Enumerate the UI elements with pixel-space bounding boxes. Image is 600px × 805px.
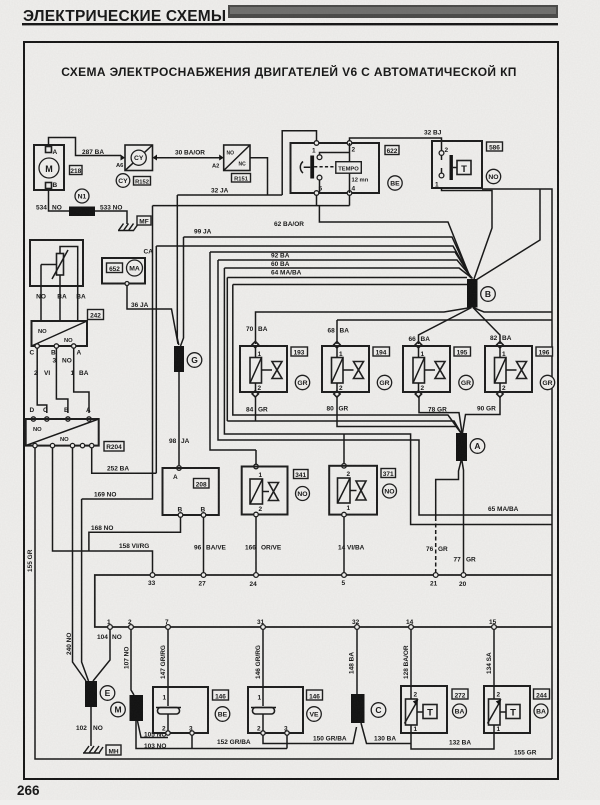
wire 60 BA (to 65 MA/BA run) [218,260,552,515]
circle NO (371) [383,484,397,498]
wire 78 GR (195 to A) [419,396,462,433]
wire 622 terminal 1 up-left-down [282,131,316,195]
bus terminal 31 [257,619,265,629]
connector A [456,433,485,461]
solenoid valve 371 [329,464,377,517]
wire 148 BA (bus 32 to C) [349,629,358,694]
circle GR (193) [295,375,309,389]
label 146 (BE) [213,690,229,700]
wire 64 MA/BA [224,268,552,525]
motor M1 (component 218) [34,145,64,190]
wire 341-1 tap up [255,450,257,464]
bus terminal 15 [489,619,497,629]
wire 84 GR (193 to A) [227,396,461,433]
header gray bar [228,5,558,18]
label 146 (VE) [307,690,323,700]
label 194 [373,347,390,356]
label MF [137,216,151,225]
relay contact R151 [212,145,250,171]
wire 130 BA (C to 272) [361,723,411,744]
label 65 MA/BA [488,506,519,513]
label 218 [70,166,83,175]
wire 77 GR (A to bus 20) [454,461,477,573]
wire N1 splice 534 NO / 533 NO and ground MF [36,190,127,224]
circle BE (146-1) [215,707,230,722]
relay 652 with MA [102,258,145,286]
circle GR (195) [459,375,473,389]
wire 622 terminals 5/4 junction to left vertical [153,195,350,205]
bus terminal 14 [406,619,414,629]
wire 146 GR/RG (bus 31 to 146-2) [255,629,263,687]
circle GR (194) [377,375,391,389]
connector C [351,694,386,723]
circle N1 [75,189,89,203]
wire 90 GR (196 to A) [463,396,501,433]
wire 76 GR dashed (A to bus 21) [426,461,461,573]
bus terminal 1 [107,619,112,629]
switch box NO/NO (under 242) [30,321,88,357]
injector feed rail from B (70 BA) [246,308,552,345]
circle NO (341) [296,487,310,501]
label 622 [385,146,399,155]
ground near motor [118,224,139,231]
bus terminal 24 [250,573,259,588]
connector G [174,346,202,372]
wire 150 GR/BA (146-2 to C) [263,727,357,744]
circle BE (622) [388,176,402,190]
injector 193 [240,341,287,397]
circle BA (244) [534,704,548,718]
label R204 [104,442,124,452]
wire 158 VI/RG (R204 to bus 33) [53,448,153,573]
wire 80 GR (194 to A) [327,396,462,433]
wire 103 NO / 152 GR/BA (M to 146 boxes) [136,721,287,750]
wire 107 NO (bus 2 to M) [124,629,135,695]
wires 2 VI / 3 NO / 1 BA (to R204) [34,348,89,413]
wire 166 OR/VE (341 to bus 24) [245,517,282,573]
timer relay 622 [291,141,380,196]
coolant sensor box 242 [30,240,83,286]
label 272 [452,689,468,699]
wire 66 BA (B to 195) [409,308,472,345]
wire 32 BJ (622-2 to 586-2) [350,130,442,151]
bus terminal 21 [430,573,438,588]
bus terminal 5 [342,573,347,587]
wire 146-2 terminal 3 [286,735,288,748]
temp sensor 272 [401,686,447,733]
wire 146-1 terminal 3 [191,735,193,748]
main bus upper (y=573) [95,575,552,627]
connector M [111,695,143,721]
bus terminal 20 [459,573,467,588]
circle CY [116,174,130,188]
wire 32 JA (R151 out, to G) [177,158,282,195]
circle VE (146-2) [307,707,322,722]
label 195 [454,347,471,356]
switch box R204 [26,407,99,448]
wire 104 NO (bus 1 to E) [93,629,122,681]
wire 82 BA (B to 196) [473,308,512,345]
header underline [22,23,558,25]
label MH [106,745,121,755]
connector B [467,279,495,308]
ground MH [83,746,103,753]
wire 147 GR/RG (bus 7 to 146-1) [160,629,168,687]
wire 30 BA/OR (CY to R151) [157,150,220,158]
wire 252 BA (R204 to CA) [92,448,157,474]
bus terminal 2 [128,619,133,629]
injector 196 [485,342,532,398]
wire CA (586 line down-left) [144,246,472,473]
bus terminal 7 [165,619,170,629]
wire 586-1 down to B funnel [442,188,493,279]
wire 128 BA/OR (bus 14 to 272) [403,629,411,686]
wire 155 GR (left vertical, bottom rail) [27,448,552,759]
wire 105 NO (M to 146-1) [138,721,169,739]
injector rail 2 (68 BA, to right edge) [328,320,553,344]
label 341 [294,470,309,479]
solenoid valve 341 [242,464,288,517]
wire 168 NO (208-B to R204 area) [89,517,181,551]
wire 287 BA (motor A to CY) [49,138,122,157]
wire 36 JA (652 to G) [127,286,178,345]
wire 92 BA [210,252,472,450]
wire relay-5/4 long vertical (169 NO) [82,206,153,681]
wire 371-2 tap up [343,434,345,464]
label 371 [381,469,396,478]
label R151 [232,174,251,183]
label 586 [487,142,503,151]
wires NO BA BA below 242 box [36,286,86,321]
thermal switch 586 [432,141,482,189]
bus terminal 27 [199,573,207,588]
circle BA (272) [453,704,467,718]
connector E [85,681,115,707]
label R152 [134,177,151,186]
bus terminal 32 [352,619,360,629]
label 244 [534,689,550,699]
wire 99 JA (B to G) [181,229,471,347]
wire 132 BA (272 to 244) [411,733,494,749]
wire 96 BA/VE (208-B to bus 27) [194,517,227,573]
wire into B top-left [227,278,467,434]
wire 134 SA (bus 15 to 244) [486,629,494,686]
wire 62 BA/OR (to connector B) [274,206,470,277]
capacitor 146 (BE) [153,687,208,735]
control unit 208 [163,466,219,518]
relay CY (R152) [116,145,157,171]
label 196 [536,347,553,356]
injector 195 [403,342,450,398]
bus terminal 33 [148,573,156,587]
wire 14 VI/BA (371 to bus 5) [338,517,365,573]
capacitor 146 (VE) [248,687,303,735]
wire 240 NO (R204 to E) [66,448,86,681]
wire 98 JA (G to 208) [169,372,190,468]
circle NO (586) [486,169,500,183]
circle GR (196) [540,375,554,389]
wire 102 NO (E to ground MH) [76,707,103,746]
label 242 [88,310,104,320]
label 193 [291,347,308,356]
wire right-edge bus from 586 area [476,189,552,759]
temp sensor 244 [484,686,530,733]
injector 194 [322,342,369,398]
wire 32JA vertical into G [177,195,179,345]
